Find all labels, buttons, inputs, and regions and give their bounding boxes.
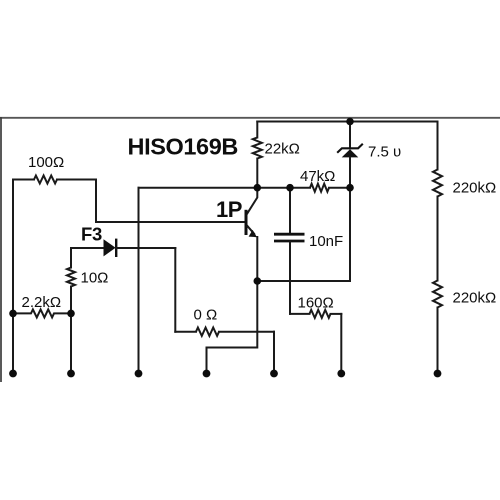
wire 10ohm to bottom terminal [70, 287, 72, 374]
transistor Q1 1P emitter arrowhead [249, 230, 257, 237]
node 2.2k right / 10ohm junction [67, 310, 75, 318]
svg-text:7.5 υ: 7.5 υ [368, 144, 401, 161]
wire diode-node down to 10ohm [70, 248, 72, 268]
terminal dot 1 [9, 370, 17, 378]
resistor 160ohm [310, 310, 331, 318]
wire capacitor bottom lead [289, 242, 291, 314]
svg-text:220kΩ: 220kΩ [453, 290, 497, 307]
svg-text:2.2kΩ: 2.2kΩ [22, 294, 62, 311]
svg-text:100Ω: 100Ω [28, 154, 64, 171]
svg-text:10nF: 10nF [309, 233, 343, 250]
terminal dot 6 [337, 370, 345, 378]
wire 100ohm right lead [57, 179, 96, 181]
frame left border [0, 117, 2, 382]
svg-text:22kΩ: 22kΩ [265, 141, 300, 158]
node capacitor tap junction [286, 184, 294, 192]
diode F3 cathode bar [115, 239, 117, 257]
wire emitter down to node [256, 237, 258, 281]
terminal dot 5 [270, 370, 278, 378]
wire diode right lead [116, 247, 175, 249]
wire 0ohm left lead [175, 331, 196, 333]
wire zener bottom lead [349, 157, 351, 187]
svg-text:10Ω: 10Ω [81, 270, 109, 287]
wire 160ohm right lead [331, 313, 342, 315]
node 2.2k left / left rail junction [9, 310, 17, 318]
resistor 22kohm [253, 138, 262, 159]
wire right rail top segment [437, 122, 439, 170]
wire node line from left vertical to 47k [139, 187, 311, 189]
capacitor 10nF bottom plate [274, 240, 305, 243]
wire zener node down and left to emitter node [257, 188, 350, 281]
wire 100ohm left lead [13, 179, 34, 181]
transistor Q1 1P emitter [247, 225, 255, 234]
zener diode 7.5V cathode bar with wings [337, 144, 363, 153]
resistor 10ohm [67, 268, 75, 287]
wire zener top lead [349, 122, 351, 149]
resistor 2.2kohm with leads [13, 309, 71, 317]
frame top border [0, 117, 500, 119]
svg-text:160Ω: 160Ω [298, 295, 334, 312]
terminal dot 2 [67, 370, 75, 378]
wire 0ohm output down to terminal [273, 332, 275, 374]
node collector / 22k / node-line junction [253, 184, 261, 192]
node emitter junction [253, 277, 261, 285]
wire diode left lead [71, 247, 104, 249]
transistor Q1 1P collector [247, 188, 257, 215]
capacitor 10nF top plate [274, 233, 305, 236]
wire capacitor top lead [289, 188, 291, 233]
svg-text:HISO169B: HISO169B [128, 134, 238, 160]
wire from diode node down to 0ohm [174, 248, 176, 332]
wire emitter node down left to terminal [207, 281, 258, 373]
svg-text:47kΩ: 47kΩ [300, 168, 335, 185]
terminal dot 4 [203, 370, 211, 378]
transistor Q1 1P base bar [245, 210, 248, 235]
diode F3 triangle [104, 239, 116, 256]
wire 0ohm right lead [219, 331, 274, 333]
wire 160ohm left lead [290, 313, 310, 315]
resistor 100ohm [34, 176, 57, 184]
svg-text:220kΩ: 220kΩ [453, 180, 497, 197]
resistor 220kohm upper [433, 170, 442, 197]
wire top rail horizontal [257, 121, 437, 123]
wire 22kohm bottom lead [256, 159, 258, 188]
svg-text:1P: 1P [216, 197, 242, 222]
wire from 100ohm down to base [95, 180, 97, 223]
wire right rail bottom segment [437, 308, 439, 374]
wire 22kohm top lead [256, 122, 258, 138]
wire right rail middle segment [437, 197, 439, 281]
wire node line down to bottom terminal [138, 188, 140, 374]
wire 160ohm down to terminal [340, 314, 342, 373]
node 47k / zener bottom junction [346, 184, 354, 192]
wire left rail vertical [12, 180, 14, 374]
wire 47kohm right lead [329, 187, 350, 189]
svg-text:F3: F3 [81, 224, 102, 245]
resistor 0ohm [196, 328, 219, 336]
node top rail / zener junction [346, 118, 354, 126]
terminal dot 3 [135, 370, 143, 378]
wire base horizontal [96, 221, 245, 223]
zener diode 7.5V triangle [342, 149, 359, 157]
resistor 220kohm lower [433, 281, 442, 308]
resistor 47kohm [310, 184, 329, 192]
svg-text:0 Ω: 0 Ω [194, 307, 218, 324]
terminal dot 7 [434, 370, 442, 378]
